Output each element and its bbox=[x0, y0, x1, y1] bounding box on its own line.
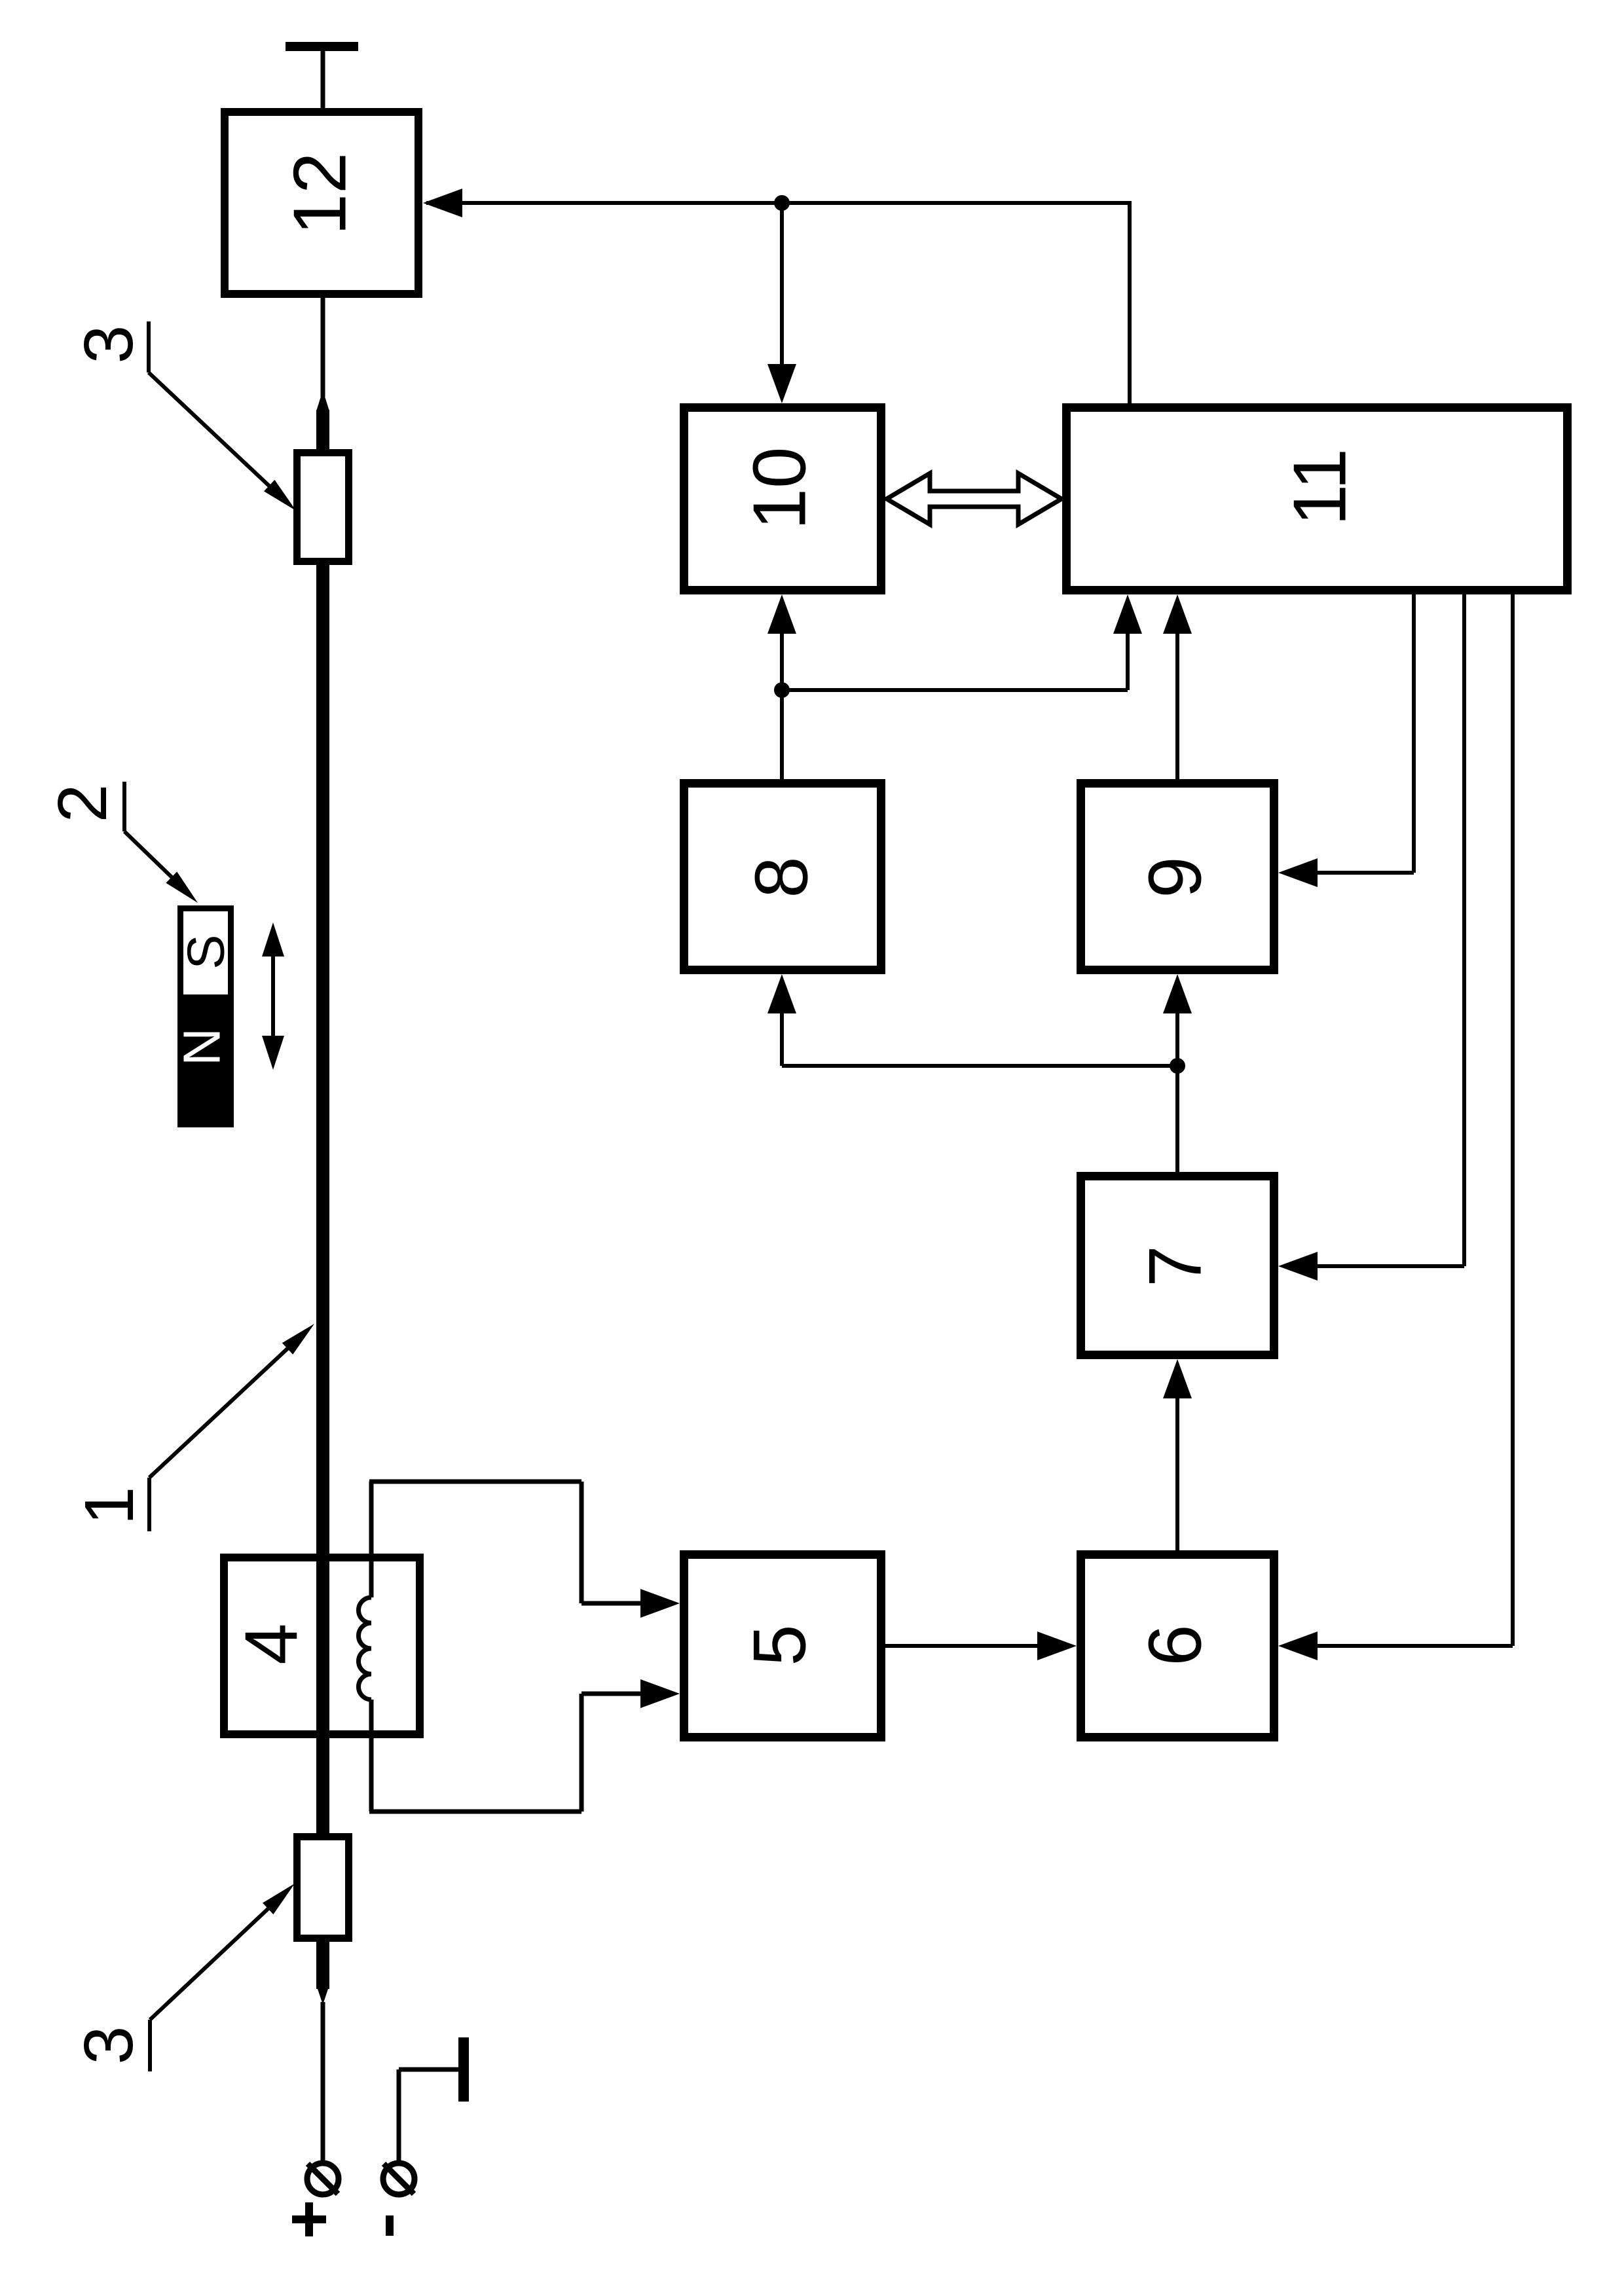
svg-text:1: 1 bbox=[71, 1487, 148, 1525]
arrowhead into 6 right bbox=[1278, 1631, 1318, 1660]
wire: branch left to 8 bbox=[782, 1003, 1177, 1066]
block 5 bbox=[684, 1555, 881, 1738]
damper 3 (bottom) bbox=[297, 1837, 349, 1939]
wire: 7 to 9 bbox=[1175, 1003, 1179, 1172]
arrowhead into 8 bottom bbox=[767, 974, 796, 1013]
junction node on bus bbox=[774, 195, 790, 211]
leader for label 2 bbox=[124, 782, 183, 888]
junction node on 7-9 wire bbox=[1170, 1058, 1185, 1074]
arrowhead into 9 right bbox=[1278, 858, 1318, 887]
coil winding bbox=[359, 1597, 372, 1700]
svg-text:8: 8 bbox=[741, 856, 824, 898]
arrowhead into 11 bottom (right) bbox=[1163, 594, 1192, 634]
arrowhead into 7 bottom bbox=[1163, 1359, 1192, 1398]
ground (top, near block 12) bbox=[286, 42, 358, 109]
arrowhead into 11 bottom (left) bbox=[1113, 594, 1142, 634]
svg-text:4: 4 bbox=[231, 1623, 314, 1664]
arrowhead into 12 bbox=[423, 189, 462, 217]
wire: coil top terminal to 5 bbox=[369, 1482, 652, 1603]
wire: 8 to 10 bbox=[780, 623, 784, 779]
wire: 11 feedback to 7 bbox=[1308, 594, 1464, 1266]
arrowhead into 9 bottom bbox=[1163, 974, 1192, 1013]
block 8 bbox=[684, 784, 881, 970]
label - bbox=[386, 2215, 394, 2236]
svg-text:3: 3 bbox=[70, 325, 147, 364]
block 10 bbox=[684, 408, 881, 591]
wire: 11 feedback to 6 bbox=[1308, 594, 1513, 1646]
arrowhead into 10 top bbox=[767, 364, 796, 403]
waveguide through block 4 bbox=[316, 1558, 329, 1734]
svg-text:12: 12 bbox=[279, 153, 362, 236]
block 12 bbox=[225, 112, 418, 294]
svg-text:11: 11 bbox=[1279, 448, 1362, 526]
svg-text:7: 7 bbox=[1134, 1245, 1217, 1286]
leader for label 3 (bottom) bbox=[150, 1897, 280, 2071]
svg-text:2: 2 bbox=[44, 784, 121, 823]
bidirectional open arrow 10-11 bbox=[887, 473, 1061, 524]
junction node on 8-10 wire bbox=[774, 682, 790, 698]
block 6 bbox=[1081, 1555, 1274, 1738]
- terminal bbox=[383, 2163, 415, 2195]
block 9 bbox=[1081, 784, 1274, 970]
svg-text:3: 3 bbox=[70, 2026, 147, 2065]
magnet 2 bbox=[177, 909, 234, 1128]
block 4 (excitation coil housing) bbox=[224, 1558, 420, 1734]
wire: waveguide to + terminal bbox=[321, 2002, 325, 2164]
magnet motion double arrow bbox=[262, 922, 284, 1070]
wire: 9 to 11 bbox=[1175, 622, 1179, 779]
arrowhead into 10 bottom bbox=[767, 594, 796, 634]
svg-text:9: 9 bbox=[1134, 856, 1217, 898]
svg-text:N: N bbox=[173, 1028, 231, 1066]
arrowhead into 6 left bbox=[1037, 1631, 1077, 1660]
wire: bus branch down to 10 bbox=[780, 203, 784, 367]
block 7 bbox=[1081, 1176, 1274, 1355]
leader for label 1 bbox=[149, 1348, 288, 1531]
arrowhead into 5 (upper) bbox=[640, 1589, 680, 1618]
leader for label 3 (top) bbox=[149, 321, 282, 498]
wire: - terminal to ground bbox=[399, 2069, 460, 2164]
svg-text:6: 6 bbox=[1134, 1624, 1217, 1666]
wire: branch to 11 bottom bbox=[782, 622, 1128, 690]
ground (bottom) bbox=[458, 2037, 469, 2102]
arrowhead into 5 (lower) bbox=[640, 1679, 680, 1708]
block 11 bbox=[1067, 408, 1568, 591]
damper 3 (top) bbox=[297, 453, 349, 562]
wire: 6 to 7 bbox=[1175, 1388, 1179, 1550]
wire: 5 to 6 bbox=[885, 1644, 1048, 1648]
svg-text:S: S bbox=[177, 934, 235, 969]
arrowhead into 7 right bbox=[1278, 1252, 1318, 1281]
svg-text:5: 5 bbox=[739, 1624, 822, 1666]
wire: 12 to waveguide bbox=[321, 298, 325, 397]
+ terminal bbox=[307, 2163, 339, 2195]
waveguide 1 (thick wire) bbox=[316, 390, 329, 2005]
svg-text:10: 10 bbox=[739, 447, 822, 530]
wire: 11 feedback to 9 bbox=[1307, 594, 1414, 873]
wire: coil bottom terminal to 5 bbox=[369, 1694, 652, 1812]
label + bbox=[292, 2202, 326, 2236]
wire: 11 top to 12 (horizontal bus) bbox=[426, 201, 1130, 403]
